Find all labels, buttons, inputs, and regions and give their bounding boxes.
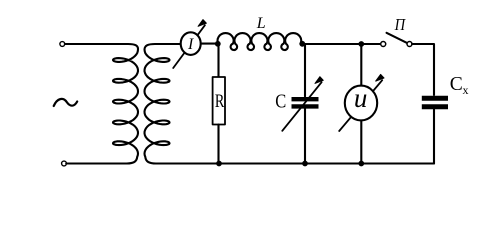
ammeter arrow xyxy=(173,25,205,68)
capacitor C plate bottom xyxy=(292,104,319,108)
node U top xyxy=(358,41,364,47)
capacitor C plate top xyxy=(292,97,319,101)
node L end / C top xyxy=(299,41,305,47)
wire Cx bottom xyxy=(433,110,435,164)
transformer primary winding xyxy=(65,44,138,164)
voltmeter arrow xyxy=(339,80,382,131)
wire top rail to switch xyxy=(302,43,380,45)
svg-text:C: C xyxy=(450,73,463,95)
svg-text:u: u xyxy=(354,83,368,113)
svg-text:I: I xyxy=(187,36,194,53)
node R bottom xyxy=(216,161,222,167)
voltmeter branch wire xyxy=(360,44,362,164)
voltmeter circle xyxy=(345,86,377,121)
switch terminal left xyxy=(381,42,386,47)
terminal top-left xyxy=(60,42,65,47)
wire ammeter to node xyxy=(202,43,219,45)
terminal bottom-left xyxy=(62,161,67,166)
svg-text:R: R xyxy=(215,91,225,112)
node U bottom xyxy=(358,161,364,167)
AC source G1 tilde xyxy=(54,99,77,106)
transformer secondary winding xyxy=(145,44,435,164)
svg-text:C: C xyxy=(275,90,286,112)
inductor L xyxy=(218,33,302,50)
wire C branch top xyxy=(304,44,306,97)
variable capacitor C arrow xyxy=(282,82,321,131)
svg-text:П: П xyxy=(394,15,407,34)
svg-text:x: x xyxy=(463,83,469,97)
node R top xyxy=(215,41,221,47)
node C bottom xyxy=(302,161,308,167)
switch lever xyxy=(387,33,408,43)
wire R branch bottom xyxy=(217,125,219,164)
switch terminal right xyxy=(407,42,412,47)
svg-text:L: L xyxy=(256,15,266,32)
wire R branch top xyxy=(217,44,219,77)
wire switch to Cx xyxy=(412,44,434,95)
ammeter circle xyxy=(181,32,201,55)
capacitor Cx plate top xyxy=(422,96,448,101)
resistor R body xyxy=(213,77,225,125)
capacitor Cx plate bottom xyxy=(422,104,448,109)
wire C branch bottom xyxy=(304,109,306,164)
